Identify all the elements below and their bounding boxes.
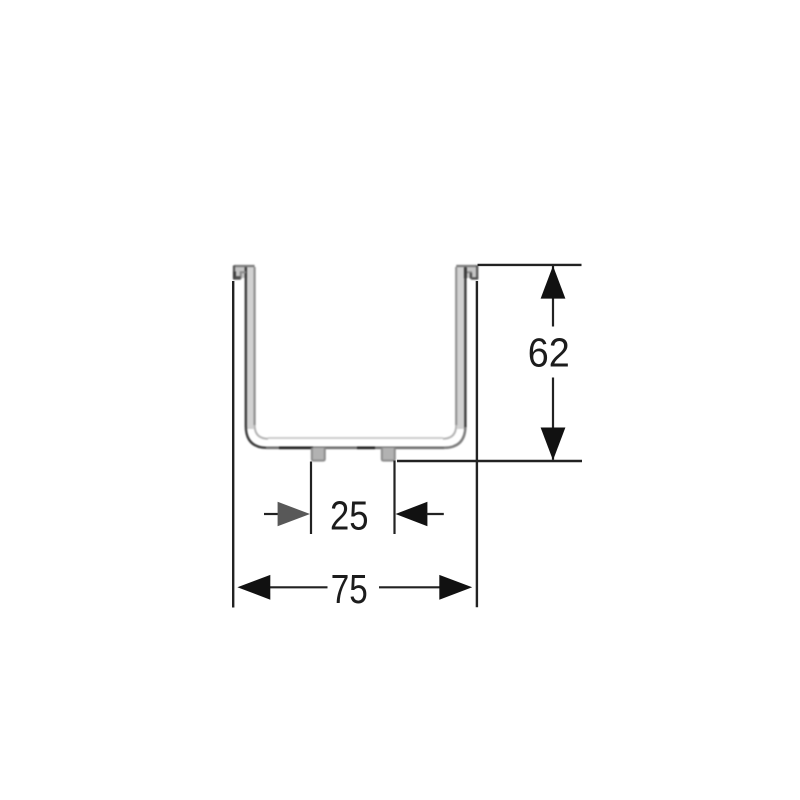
arrowhead 62 down	[541, 428, 566, 461]
wire: left lip dark fold mark 2	[235, 276, 241, 279]
wire: right wall midline underlay	[457, 267, 464, 429]
wire: left lip hook bottom	[233, 277, 241, 279]
dimension tail 25 left	[264, 513, 280, 515]
arrowhead 62 up	[541, 266, 566, 299]
left lip blob underlay	[235, 267, 248, 279]
wire: inner corner arcs	[255, 425, 457, 439]
wire: right lip dark fold mark 2	[470, 273, 472, 279]
arrowhead 25 right	[396, 502, 428, 526]
tab left on channel base	[312, 448, 325, 461]
channel profile (gray sheet-metal cross-section)	[233, 266, 478, 461]
wire: inner bottom line (faint)	[268, 437, 443, 439]
dimension line 62 upper segment	[552, 266, 554, 327]
wire: left wall midline underlay (blurred fill between contours)	[247, 267, 254, 429]
extension line 25 right	[393, 461, 395, 535]
wire: outer contour right wall	[464, 267, 466, 427]
wire: right lip hook outer	[476, 266, 478, 279]
wire: right lip hook inner	[465, 272, 471, 279]
dimension line 62 lower segment	[552, 378, 554, 460]
arrowhead 25 left (gray)	[278, 502, 310, 526]
right lip blob underlay	[464, 267, 477, 279]
wire: inner contour right wall	[455, 267, 457, 425]
wire: outer bottom line	[266, 446, 445, 449]
wire: top edge left lip	[234, 265, 255, 267]
arrowhead 75 left	[237, 575, 270, 600]
svg-text:25: 25	[330, 492, 369, 538]
svg-text:62: 62	[528, 329, 570, 375]
tab right on channel base	[382, 448, 395, 461]
extension line left (75 reference)	[232, 281, 234, 608]
wire: top edge right lip	[456, 265, 477, 267]
arrowhead 75 right	[439, 575, 472, 600]
svg-text:75: 75	[331, 566, 368, 612]
wire: right lip hook bottom	[471, 277, 478, 279]
extension line top right (62 upper reference)	[478, 264, 582, 266]
wire: dark segment on bottom outer line	[279, 446, 375, 449]
extension line right (75 reference)	[476, 281, 478, 607]
dimension line 75 left segment	[270, 586, 328, 588]
extension line bottom (62 lower reference)	[397, 460, 582, 462]
dimension line 75 right segment	[379, 586, 440, 588]
dimension tail 25 right	[427, 513, 444, 515]
wire: outer contour left wall with corner	[246, 267, 267, 448]
wire: left lip hook outer	[233, 266, 235, 279]
wire: right lip dark fold mark	[464, 268, 467, 279]
wire: inner contour left wall	[254, 267, 256, 425]
wire: left lip hook inner	[241, 272, 246, 279]
wire: left lip dark fold mark	[233, 272, 236, 279]
dimensioning (dark)	[233, 265, 582, 608]
extension line 25 left	[310, 462, 312, 535]
wire: outer contour right wall with corner	[444, 426, 466, 448]
